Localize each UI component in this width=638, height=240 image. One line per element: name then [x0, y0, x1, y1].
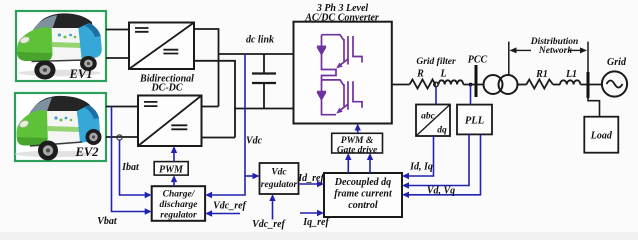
resistor R1 [526, 80, 553, 89]
abc-dq transform block [416, 105, 450, 137]
PWM & Gate drive box [332, 133, 383, 155]
grid busbar [587, 72, 590, 98]
resistor R [410, 80, 437, 89]
wire xfmr to R1 [518, 84, 527, 86]
EV1 photo frame [16, 11, 106, 81]
DC-DC converter U2 [138, 96, 202, 147]
decoupled to PWM&Gate wire 2 [369, 157, 371, 173]
svg-text:PCC: PCC [468, 55, 488, 66]
wire R1 to L1 [553, 84, 560, 86]
transformer T1 [484, 75, 518, 94]
Vdc sense wire [209, 54, 245, 195]
Vdc branch to Vdc regulator [245, 175, 256, 177]
Vdc_ref wire into charge regulator [209, 213, 240, 215]
wire DC-DC1 + output to dc bus [194, 29, 219, 107]
svg-text:Id_ref: Id_ref [297, 173, 325, 184]
right tick riser [587, 42, 589, 72]
Vd wire [406, 134, 469, 185]
capacitor C1 dc link [252, 54, 276, 109]
svg-text:PWM: PWM [159, 165, 184, 176]
svg-text:Vdc: Vdc [246, 136, 263, 147]
svg-text:PLL: PLL [465, 116, 484, 127]
Decoupled dq frame current control box [324, 173, 402, 217]
svg-text:Vdc: Vdc [271, 168, 287, 178]
PWM box [154, 162, 188, 176]
Iq_ref wire [300, 212, 321, 214]
IGBT Q2 with diode D2 [317, 80, 362, 115]
charge reg to PWM wire [173, 179, 175, 186]
Load box [584, 117, 618, 153]
svg-text:Grid: Grid [607, 57, 627, 68]
wire L1 to grid bar [580, 84, 602, 86]
decoupled to PWM&Gate wire 1 [347, 157, 349, 173]
svg-text:Network: Network [538, 46, 573, 56]
into decoupled right (Vq) [402, 192, 409, 198]
node junction circle [434, 82, 438, 86]
Vq wire [406, 134, 481, 194]
svg-text:Load: Load [590, 131, 613, 142]
wire DC-DC1 - output [194, 61, 235, 138]
svg-text:Charge/: Charge/ [163, 190, 196, 200]
svg-text:abc: abc [421, 112, 436, 122]
svg-text:control: control [348, 200, 378, 211]
svg-text:Vdc_ref: Vdc_ref [213, 201, 247, 212]
ac output wire to grid filter [392, 84, 410, 86]
Id Iq wire [406, 136, 434, 176]
svg-text:dc link: dc link [246, 35, 274, 46]
svg-text:L1: L1 [565, 69, 577, 80]
wire grid bar to load [588, 95, 600, 117]
DC-DC converter U1 (Bidirectional) [129, 23, 194, 70]
svg-text:Vbat: Vbat [97, 216, 118, 227]
svg-text:discharge: discharge [160, 200, 199, 210]
grid AC source G1 [602, 71, 627, 96]
blue control wiring [112, 54, 481, 220]
into charge box right (Vdc_ref) [205, 210, 212, 216]
node junction dot [469, 83, 472, 86]
Vbat sense wire [112, 107, 149, 212]
inductor L1 [560, 80, 580, 84]
wire DC-DC2 + output [202, 106, 219, 108]
bracket arrow right [568, 49, 583, 51]
EV1 car [17, 13, 102, 79]
bracket arrow left [513, 49, 531, 51]
wire EV1 to DC-DC top [106, 29, 129, 31]
EV2 photo frame [15, 93, 106, 161]
PLL block [457, 105, 492, 135]
into Vdc regulator left [253, 173, 260, 179]
Vdc regulator box [260, 163, 299, 194]
PWM to DC-DC2 wire [173, 150, 175, 162]
Id_ref wire [299, 183, 321, 185]
svg-text:frame current: frame current [334, 189, 393, 200]
distribution network bracket left tick / xfmr riser [508, 42, 510, 75]
svg-text:dq: dq [437, 126, 447, 136]
wire EV2 to DC-DC2 top [106, 106, 138, 108]
node current tap circle [117, 135, 122, 140]
into converter bottom [355, 124, 361, 131]
svg-text:Id, Iq: Id, Iq [409, 162, 433, 173]
AC/DC converter box U3 [294, 22, 392, 124]
into charge box right (Vdc) [205, 192, 212, 198]
into decoupled right (Id Iq) [402, 173, 409, 179]
svg-text:Ibat: Ibat [121, 162, 140, 173]
inductor L [439, 80, 464, 84]
svg-text:PWM &: PWM & [341, 136, 374, 146]
PCC busbar [475, 65, 478, 97]
svg-text:L: L [439, 69, 446, 80]
Vdc_ref up arrow wire [272, 198, 274, 220]
svg-text:Vdc_ref: Vdc_ref [252, 219, 286, 230]
into decoupled left (Id_ref) [317, 181, 324, 187]
into decoupled right (Vd) [402, 182, 409, 188]
svg-text:EV2: EV2 [75, 145, 99, 159]
into PWM&Gate bottom 2 [367, 153, 373, 160]
Charge discharge regulator box [152, 186, 205, 221]
svg-text:EV1: EV1 [69, 67, 93, 81]
dc link bottom bus [234, 108, 294, 110]
svg-text:R: R [416, 69, 424, 80]
svg-text:Grid filter: Grid filter [416, 57, 456, 67]
svg-text:R1: R1 [535, 69, 548, 80]
wire to PCC [463, 84, 483, 86]
svg-text:Decoupled dq: Decoupled dq [334, 177, 391, 188]
PLL input wire [470, 85, 472, 105]
into PWM&Gate bottom 1 [345, 153, 351, 160]
abc dq input wire [435, 87, 437, 105]
into DC-DC2 bottom [171, 146, 177, 153]
PWM&Gate to converter wire [357, 128, 359, 134]
svg-text:DC-DC: DC-DC [150, 83, 182, 94]
EV2 car [15, 96, 102, 161]
svg-text:Iq_ref: Iq_ref [302, 217, 330, 228]
into decoupled left (Iq_ref) [317, 210, 324, 216]
svg-text:Gate drive: Gate drive [337, 146, 378, 156]
into charge box left (Ibat) [145, 192, 152, 198]
svg-text:Vd, Vq: Vd, Vq [427, 186, 455, 197]
into charge box left (Vbat) [145, 208, 152, 214]
into PWM box bottom [171, 175, 177, 182]
Ibat sense wire [120, 140, 149, 195]
IGBT Q1 with diode D1 [317, 35, 362, 80]
into Vdc regulator bottom [269, 194, 275, 201]
wire EV2 to DC-DC2 bottom [106, 136, 138, 138]
blue arrowheads [145, 124, 409, 217]
svg-text:regulator: regulator [261, 180, 298, 190]
wire EV1 to DC-DC bottom [106, 57, 129, 59]
dc link top bus [219, 53, 294, 55]
wire DC-DC2 - output [202, 137, 236, 139]
svg-text:regulator: regulator [160, 211, 197, 221]
